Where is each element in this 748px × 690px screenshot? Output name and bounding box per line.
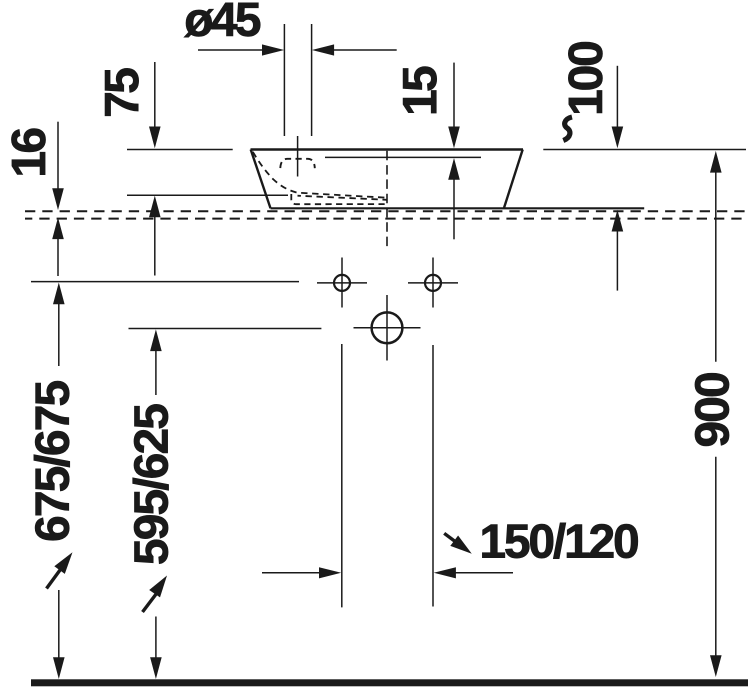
label 75 (rotated) bbox=[105, 68, 138, 115]
centerline of faucet hole bbox=[297, 136, 299, 177]
label 15 (rotated) bbox=[403, 67, 436, 113]
basin left slanted side bbox=[251, 150, 271, 209]
label 16 (rotated) bbox=[12, 129, 46, 175]
label 150/120 bbox=[482, 523, 637, 559]
worktop bottom dashed line bbox=[25, 218, 748, 220]
basin right slanted side bbox=[504, 150, 523, 209]
dimension 75 upper shaft with down arrowhead bbox=[149, 62, 161, 148]
dimension 150/120 right segment with left-pointing arrowhead bbox=[434, 567, 513, 578]
dimension line ø45 left segment with right-pointing arrowhead bbox=[198, 44, 284, 55]
dimension 16 lower shaft with up arrowhead bbox=[52, 217, 64, 276]
reference line rim level (left of basin) bbox=[127, 149, 233, 151]
extension line ø45 right edge bbox=[311, 24, 313, 136]
extension line below right faucet hole bbox=[432, 345, 434, 607]
faucet hole right crosshair vertical bbox=[432, 258, 434, 308]
drain hole circle bbox=[372, 312, 403, 343]
reference line A faucet hole height bbox=[31, 281, 299, 283]
label ø45 bbox=[184, 3, 260, 37]
dimension ~100 upper shaft with down arrowhead bbox=[612, 66, 624, 148]
reference line rim level (right of basin) bbox=[543, 149, 746, 151]
faucet hole right crosshair horizontal bbox=[408, 282, 458, 284]
reference line 75 below rim bbox=[127, 194, 288, 196]
label 675/675 (rotated) bbox=[34, 381, 70, 540]
dimension 75 lower shaft with up arrowhead bbox=[149, 196, 161, 276]
dimension 900 upper shaft with up arrowhead bbox=[710, 151, 722, 362]
leader arrow SE for 150/120 bbox=[444, 533, 472, 554]
dashed bowl inner bottom line 2 bbox=[298, 196, 388, 200]
dimension 675/675 upper up arrowhead and shaft bbox=[53, 283, 65, 367]
faucet hole left crosshair horizontal bbox=[317, 282, 367, 284]
faucet hole left crosshair vertical bbox=[341, 258, 343, 308]
label ~100 (rotated) bbox=[563, 42, 602, 140]
dashed bowl sump outline with corner bbox=[291, 194, 388, 204]
leader arrow NE for 595/625 bbox=[143, 576, 168, 613]
dashed ellipse arc of ø45 faucet hole bbox=[280, 159, 315, 168]
faucet hole right circle bbox=[425, 275, 441, 291]
leader arrow NE for 675/675 bbox=[47, 552, 73, 588]
floor line bbox=[31, 679, 748, 686]
dimension 595/625 lower shaft with down arrowhead bbox=[150, 617, 162, 680]
basin bottom edge extended to right (mounting surface line) bbox=[271, 207, 645, 209]
label 595/625 (rotated) bbox=[133, 404, 169, 563]
worktop top dashed line bbox=[25, 210, 748, 212]
dimension 16 upper shaft with down arrowhead bbox=[52, 122, 64, 210]
dimension 900 lower shaft with down arrowhead bbox=[710, 457, 722, 677]
faucet hole left circle bbox=[334, 275, 350, 291]
basin inner rim line (15 below top) bbox=[325, 156, 481, 158]
extension line below left faucet hole bbox=[341, 344, 343, 607]
dimension line ø45 right segment with left-pointing arrowhead bbox=[312, 44, 397, 55]
reference line B drain height bbox=[129, 328, 322, 330]
dimension 595/625 upper up arrowhead and shaft bbox=[150, 329, 162, 395]
dimension 675/675 lower shaft with down arrowhead bbox=[53, 590, 65, 679]
dimension 15 lower shaft with up arrowhead bbox=[448, 158, 460, 239]
extension line ø45 left edge bbox=[283, 24, 285, 136]
basin top rim edge bbox=[251, 148, 524, 150]
drain hole crosshair horizontal bbox=[354, 327, 421, 329]
dashed bowl inner wall curve bbox=[253, 152, 385, 198]
label 900 (rotated) bbox=[695, 373, 729, 446]
drain hole crosshair vertical bbox=[386, 295, 388, 361]
dimension 15 upper shaft with down arrowhead bbox=[448, 63, 460, 149]
dashed drain centerline inside basin bbox=[386, 151, 388, 247]
dimension ~100 lower shaft with up arrowhead bbox=[612, 210, 624, 291]
dimension 150/120 left segment with right-pointing arrowhead bbox=[262, 567, 341, 578]
